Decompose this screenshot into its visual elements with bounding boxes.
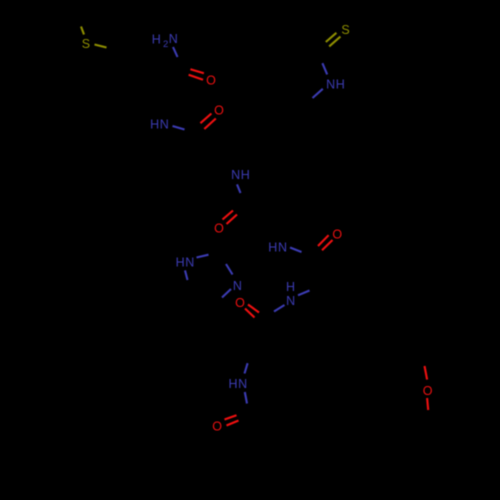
- bond C=O5 double line 2: [245, 309, 255, 318]
- bond C=O1 double line 2: [189, 75, 203, 80]
- bond imidazole C2-N3 (nitrogen half): [226, 264, 233, 275]
- bond C=O3 double line 2: [227, 215, 238, 225]
- bond N-H(vert) down-left (nitrogen half): [274, 305, 285, 312]
- svg-text:2: 2: [163, 39, 168, 50]
- svg-text:O: O: [423, 384, 433, 398]
- svg-text:O: O: [206, 74, 216, 88]
- bond imidazole N3-C4 (nitrogen half): [222, 289, 231, 298]
- bond NH-C amide3 (nitrogen half): [237, 184, 241, 193]
- svg-text:O: O: [212, 420, 222, 434]
- svg-text:N: N: [169, 32, 178, 46]
- svg-text:NH: NH: [231, 168, 250, 182]
- svg-text:O: O: [332, 228, 342, 242]
- svg-text:S: S: [82, 37, 90, 51]
- svg-text:H: H: [286, 280, 295, 294]
- svg-text:HN: HN: [268, 240, 287, 254]
- bond C=O4 double line 2: [322, 240, 333, 250]
- bond C=O3 double line 1: [223, 211, 234, 220]
- bond C=O5 double line 1: [248, 305, 259, 313]
- bond HN-C amide2 (nitrogen half): [173, 126, 185, 130]
- svg-text:HN: HN: [228, 377, 247, 391]
- svg-text:HN: HN: [176, 255, 195, 269]
- svg-text:HN: HN: [150, 118, 169, 132]
- svg-text:H: H: [152, 32, 161, 46]
- svg-text:O: O: [214, 104, 224, 118]
- bond C=O2 double line 1: [200, 114, 211, 124]
- svg-text:O: O: [235, 296, 245, 310]
- bond C=O6 double line 2: [227, 421, 239, 426]
- bond thioamide NH-CH2 (nitrogen half): [313, 89, 323, 98]
- bond N-H(vert) up-right (nitrogen half): [298, 291, 310, 296]
- bond bottom HN up (nitrogen half): [245, 363, 248, 373]
- bond C=O1 double line 1: [190, 69, 204, 73]
- svg-text:N: N: [233, 279, 242, 293]
- bond C=O4 double line 1: [318, 235, 329, 246]
- bond S1-CH3 (sulfur half): [81, 27, 84, 35]
- bond C=O6 double line 1: [225, 415, 237, 419]
- bond C=S2 thioamide double line 2: [329, 37, 340, 47]
- bond HN-C amide4 (nitrogen half): [290, 248, 302, 253]
- bond S1-CH2 (sulfur half): [95, 45, 107, 48]
- bond thioamide NH up (nitrogen half): [322, 63, 327, 74]
- svg-text:S: S: [341, 23, 349, 37]
- bond imidazole N1-C5 (nitrogen half): [185, 270, 188, 280]
- bond ether O up (oxygen half): [425, 366, 428, 380]
- svg-text:O: O: [214, 222, 224, 236]
- svg-text:N: N: [286, 294, 295, 308]
- bond C=O2 double line 2: [204, 119, 216, 130]
- bond H2N-C (nitrogen half): [173, 47, 178, 57]
- bond ether O down (oxygen half): [427, 398, 428, 410]
- bond bottom HN-C formyl (nitrogen half): [245, 392, 247, 404]
- svg-text:NH: NH: [326, 78, 345, 92]
- bond imidazole N1-C2 (nitrogen half): [197, 255, 209, 258]
- bond C=S2 thioamide double line 1: [326, 33, 337, 42]
